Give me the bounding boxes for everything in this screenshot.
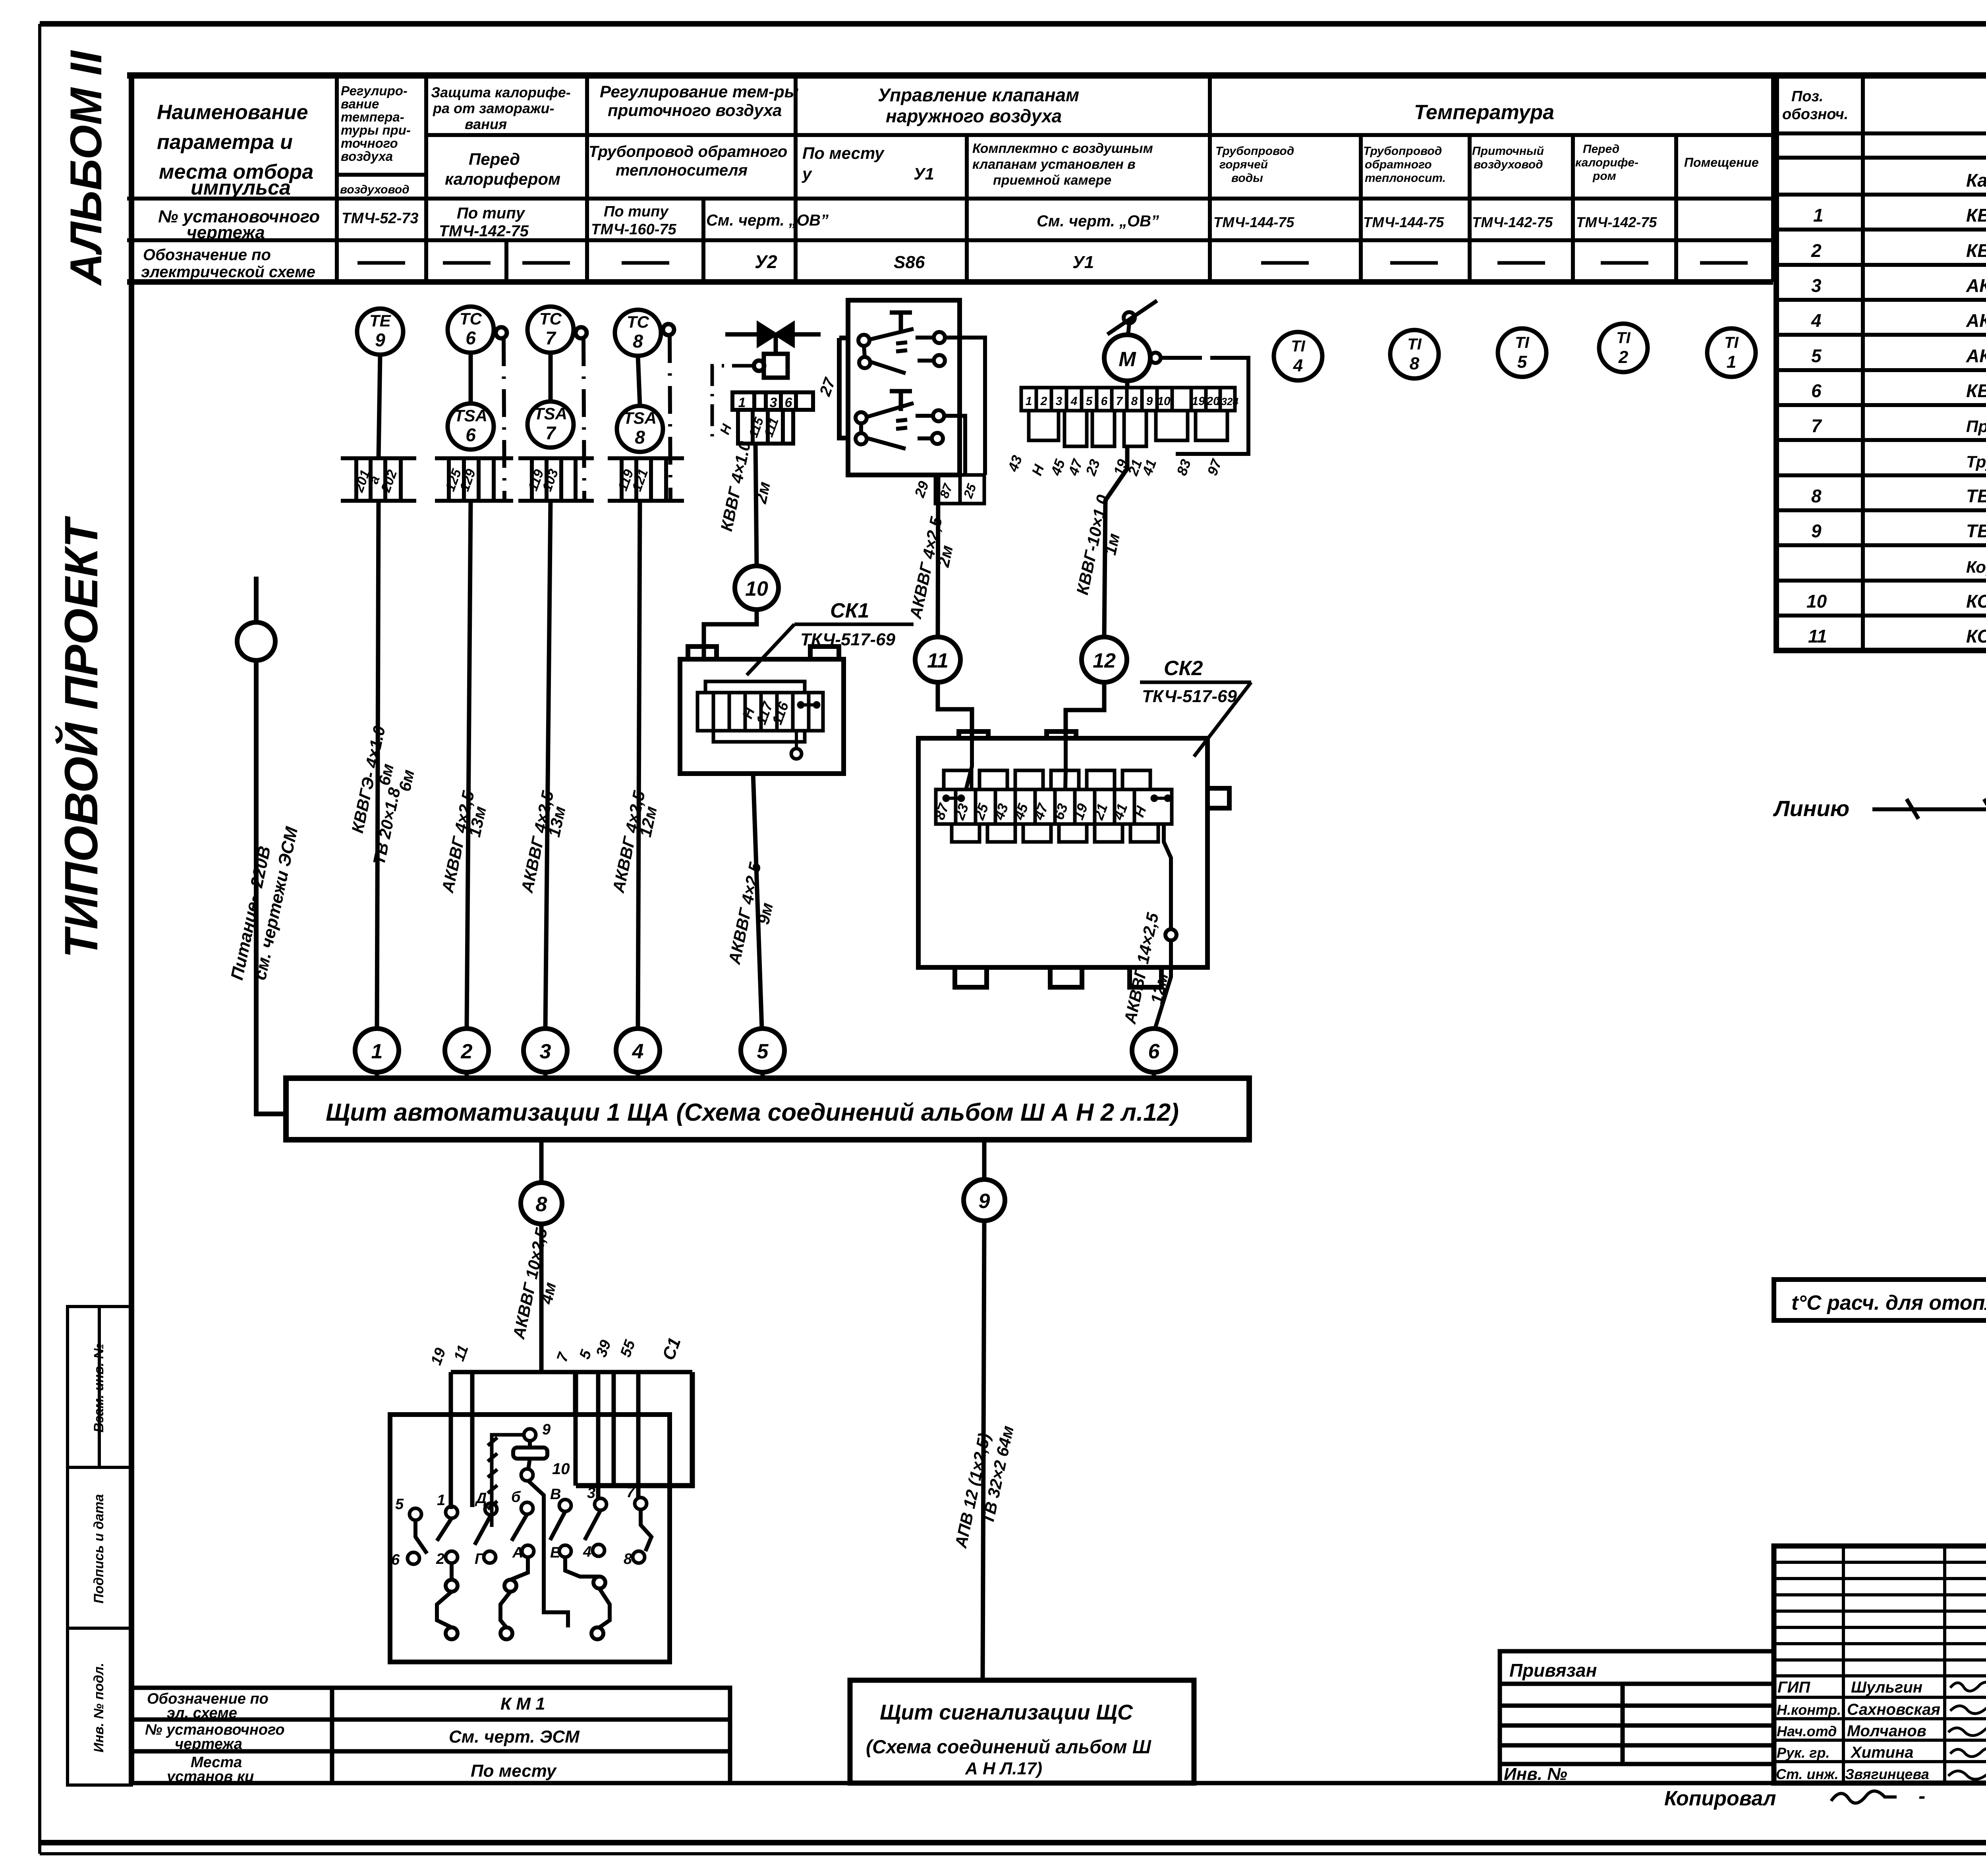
svg-text:Подпись и дата: Подпись и дата bbox=[91, 1494, 106, 1604]
wire TC6 to TSA6 bbox=[469, 353, 473, 403]
svg-text:1324: 1324 bbox=[1215, 396, 1238, 407]
svg-text:5: 5 bbox=[757, 1040, 769, 1063]
panel box ЩС bbox=[850, 1680, 1194, 1783]
left side stamp strip (Взам.инв., Подпись и дата, Инв.№ подл.) bbox=[68, 1307, 131, 1785]
sensor TC7 bbox=[527, 307, 587, 353]
dash-dot link from actuator bbox=[712, 366, 754, 442]
svg-text:ТЕ: ТЕ bbox=[369, 311, 392, 330]
svg-text:4: 4 bbox=[1070, 395, 1078, 408]
svg-text:12: 12 bbox=[1093, 649, 1116, 672]
svg-text:8: 8 bbox=[536, 1193, 547, 1216]
parts list table grid bbox=[1776, 75, 1986, 650]
node circle 1 bbox=[355, 1029, 399, 1072]
node circle 5 bbox=[741, 1029, 784, 1072]
svg-text:8: 8 bbox=[635, 427, 645, 448]
svg-text:Провод АПВ сеч. 2,5мм² ГОСТ 6: Провод АПВ сеч. 2,5мм² ГОСТ 6323-79 bbox=[1966, 417, 1986, 436]
CK1 ground circle bbox=[791, 731, 802, 759]
dashed route from motor bbox=[1161, 358, 1248, 454]
svg-text:Хитина: Хитина bbox=[1850, 1744, 1914, 1761]
terminal box under TSA7 bbox=[518, 458, 594, 501]
svg-text:АКВВГ 4×2,5: АКВВГ 4×2,5 bbox=[1966, 275, 1986, 296]
svg-text:6: 6 bbox=[785, 395, 793, 410]
svg-text:ТМЧ-144-75: ТМЧ-144-75 bbox=[1213, 214, 1294, 230]
power line node circle bbox=[237, 622, 275, 660]
wire drop 19 bbox=[449, 1372, 453, 1509]
long bottom line bbox=[730, 1781, 1500, 1785]
wire drop 11 bbox=[470, 1372, 475, 1507]
wire from coil terminal down bbox=[528, 1481, 544, 1582]
junction box CK1 bbox=[680, 647, 844, 774]
svg-text:Труба винипластовая ТУ-6-19-05: Труба винипластовая ТУ-6-19-051-249-79 bbox=[1966, 452, 1986, 471]
pipe line with valve bbox=[725, 332, 821, 337]
svg-text:См. черт. „ОВ”: См. черт. „ОВ” bbox=[1037, 212, 1159, 230]
svg-text:Защита калорифе-: Защита калорифе- bbox=[431, 84, 571, 100]
svg-text:Взам. инв. №: Взам. инв. № bbox=[91, 1343, 106, 1433]
svg-text:установ ки: установ ки bbox=[166, 1768, 254, 1785]
motor handle bbox=[1107, 301, 1157, 335]
parts list header bbox=[1782, 88, 1986, 123]
svg-text:ТМЧ-142-75: ТМЧ-142-75 bbox=[1576, 214, 1657, 230]
svg-text:1: 1 bbox=[1813, 205, 1824, 226]
svg-text:КВВГЭ 4×1.0: КВВГЭ 4×1.0 bbox=[1966, 380, 1986, 401]
svg-text:горячей: горячей bbox=[1219, 158, 1268, 171]
note: Линию демонтировать bbox=[1773, 796, 1986, 821]
terminal box under TSA6 bbox=[435, 458, 513, 501]
svg-text:(Схема соединений альбом Ш: (Схема соединений альбом Ш bbox=[866, 1737, 1151, 1758]
svg-text:А Н Л.17): А Н Л.17) bbox=[965, 1759, 1042, 1778]
svg-text:11: 11 bbox=[1808, 626, 1827, 647]
bus from circle 8 wire to C1 bbox=[451, 1370, 692, 1374]
svg-text:СК1: СК1 bbox=[830, 599, 869, 622]
junction box CK2 bbox=[918, 731, 1229, 987]
svg-text:К М 1: К М 1 bbox=[500, 1694, 545, 1714]
svg-text:Инв. №: Инв. № bbox=[1504, 1764, 1567, 1784]
svg-text:4: 4 bbox=[1811, 310, 1822, 331]
svg-text:Кабель ГОСТ 1508-78Е: Кабель ГОСТ 1508-78Е bbox=[1966, 170, 1986, 191]
svg-text:электрической схеме: электрической схеме bbox=[141, 263, 315, 281]
S86 bottom terminal cells bbox=[935, 475, 984, 504]
svg-text:Коробка соединительная ТУ36.17: Коробка соединительная ТУ36.1753-75 bbox=[1966, 558, 1986, 576]
svg-text:S86: S86 bbox=[894, 253, 925, 272]
node circle 12 bbox=[1082, 637, 1127, 682]
svg-text:ГИП: ГИП bbox=[1777, 1679, 1810, 1696]
svg-text:АКВВГ 14×2,5: АКВВГ 14×2,5 bbox=[1966, 345, 1986, 366]
node circle 2 bbox=[445, 1029, 489, 1072]
svg-text:У2: У2 bbox=[755, 251, 777, 272]
svg-text:10: 10 bbox=[1806, 591, 1827, 612]
svg-text:туры при-: туры при- bbox=[341, 123, 411, 137]
svg-text:Нач.отд: Нач.отд bbox=[1777, 1723, 1837, 1739]
CK2 label bbox=[1140, 657, 1251, 757]
node circle 10 bbox=[735, 566, 779, 610]
svg-text:3: 3 bbox=[1056, 395, 1063, 408]
terminal strip above CK1 wire bbox=[732, 392, 813, 444]
svg-text:По типу: По типу bbox=[457, 205, 525, 222]
dash-dot wire from TC8 side circle bbox=[670, 335, 670, 500]
relay contact letters bbox=[391, 1484, 636, 1568]
wire from circle 9 down to ЩС bbox=[983, 1221, 984, 1680]
signatures squiggles bbox=[1948, 1682, 1986, 1779]
sensor TC8 bbox=[615, 310, 674, 356]
svg-text:По типу: По типу bbox=[604, 203, 669, 220]
svg-text:8: 8 bbox=[1131, 395, 1138, 408]
svg-text:5: 5 bbox=[1811, 345, 1822, 366]
svg-text:М: М bbox=[1119, 348, 1136, 371]
svg-text:TSA: TSA bbox=[454, 406, 487, 425]
svg-text:Температура: Температура bbox=[1414, 101, 1554, 124]
CK2 terminal strip bbox=[936, 770, 1172, 842]
svg-text:у: у bbox=[802, 164, 813, 183]
svg-text:Е: Е bbox=[550, 1544, 561, 1561]
CK1 jumper dots bbox=[797, 701, 820, 708]
svg-text:По месту: По месту bbox=[471, 1761, 557, 1781]
svg-text:Трубопровод обратного: Трубопровод обратного bbox=[589, 143, 787, 160]
CK2 jumper dots bbox=[943, 795, 1171, 802]
svg-text:9: 9 bbox=[1146, 395, 1153, 408]
svg-text:обозноч.: обозноч. bbox=[1782, 106, 1848, 123]
svg-text:10: 10 bbox=[1157, 395, 1171, 408]
svg-text:1: 1 bbox=[1026, 395, 1032, 408]
svg-text:2: 2 bbox=[461, 1040, 473, 1063]
wire 1 from TE9 box to circle 1 bbox=[377, 501, 379, 1029]
svg-text:теплоносителя: теплоносителя bbox=[616, 162, 748, 179]
svg-text:Шульгин: Шульгин bbox=[1851, 1679, 1922, 1696]
svg-text:Ст. инж.: Ст. инж. bbox=[1776, 1766, 1839, 1782]
parameter table grid bbox=[127, 75, 1986, 282]
svg-text:9: 9 bbox=[979, 1190, 990, 1213]
svg-text:воздуховод: воздуховод bbox=[340, 183, 410, 196]
svg-text:Линию: Линию bbox=[1773, 796, 1849, 821]
svg-text:параметра и: параметра и bbox=[157, 131, 293, 154]
svg-text:КВВГ 10×1.0: КВВГ 10×1.0 bbox=[1966, 240, 1986, 261]
svg-text:См. черт. „ОВ”: См. черт. „ОВ” bbox=[706, 212, 829, 229]
svg-text:наружного воздуха: наружного воздуха bbox=[886, 106, 1062, 126]
relay terminal below coil bbox=[521, 1469, 533, 1481]
svg-text:3: 3 bbox=[770, 395, 777, 410]
svg-text:11: 11 bbox=[927, 649, 949, 672]
svg-text:6: 6 bbox=[1148, 1040, 1160, 1063]
svg-text:-: - bbox=[1918, 1785, 1925, 1808]
wire TE9 down bbox=[379, 355, 380, 458]
svg-text:Управление клапанам: Управление клапанам bbox=[878, 85, 1079, 105]
svg-text:7: 7 bbox=[545, 328, 556, 348]
svg-text:1: 1 bbox=[371, 1040, 383, 1063]
node circle 6 bbox=[1132, 1029, 1176, 1072]
S86 contact group 2 bbox=[856, 338, 985, 475]
wire 3 to circle 3 bbox=[545, 501, 551, 1029]
svg-text:Молчанов: Молчанов bbox=[1847, 1722, 1926, 1740]
svg-text:В: В bbox=[550, 1486, 561, 1503]
svg-text:Регулиро-: Регулиро- bbox=[341, 83, 408, 98]
wire drop 55 bbox=[636, 1372, 641, 1498]
wire 2 to circle 2 bbox=[467, 501, 471, 1029]
svg-text:7: 7 bbox=[626, 1484, 636, 1501]
svg-text:4: 4 bbox=[1293, 356, 1303, 375]
svg-text:6: 6 bbox=[466, 328, 476, 348]
svg-text:ра от заморажи-: ра от заморажи- bbox=[433, 100, 554, 116]
svg-text:АКВВГ 10×2,5: АКВВГ 10×2,5 bbox=[1966, 310, 1986, 331]
wire 4 to circle 4 bbox=[638, 501, 640, 1029]
instrument circle TI4 bbox=[1274, 332, 1322, 380]
relay coil 10 bbox=[513, 1441, 547, 1469]
svg-text:точного: точного bbox=[341, 136, 398, 151]
dash-dot wire from TC6 side circle bbox=[504, 338, 504, 500]
motor M bbox=[1104, 335, 1150, 381]
svg-text:7: 7 bbox=[1116, 395, 1123, 408]
svg-text:8: 8 bbox=[1811, 486, 1822, 506]
svg-text:3: 3 bbox=[1811, 275, 1822, 296]
svg-text:Рук. гр.: Рук. гр. bbox=[1777, 1745, 1830, 1761]
svg-text:ТС: ТС bbox=[460, 309, 482, 328]
sensor TSA8 bbox=[617, 406, 663, 452]
svg-text:TSA: TSA bbox=[623, 409, 657, 427]
svg-text:Инв. № подл.: Инв. № подл. bbox=[91, 1663, 106, 1752]
svg-text:Н.контр.: Н.контр. bbox=[1777, 1702, 1841, 1718]
svg-text:8: 8 bbox=[624, 1551, 632, 1567]
svg-text:ром: ром bbox=[1592, 170, 1616, 183]
svg-text:ТС: ТС bbox=[627, 313, 649, 331]
svg-text:3: 3 bbox=[587, 1485, 595, 1502]
CK1 label bbox=[747, 599, 914, 675]
svg-text:5: 5 bbox=[395, 1496, 404, 1513]
svg-text:вание: вание bbox=[341, 97, 379, 111]
svg-text:5: 5 bbox=[1086, 395, 1093, 408]
dismantle hatched wire bbox=[488, 1435, 524, 1527]
svg-text:7: 7 bbox=[545, 423, 556, 443]
parameter table header texts bbox=[141, 101, 320, 281]
svg-text:Приточный: Приточный bbox=[1472, 145, 1544, 158]
svg-text:2: 2 bbox=[1618, 347, 1629, 367]
svg-text:5: 5 bbox=[1517, 352, 1527, 372]
svg-text:1: 1 bbox=[437, 1492, 445, 1509]
terminal box under TE9 bbox=[341, 458, 416, 501]
sensor TSA6 bbox=[448, 403, 494, 450]
svg-text:калорифе-: калорифе- bbox=[1575, 156, 1638, 169]
instrument circle TI1 bbox=[1707, 328, 1756, 377]
wire TC7 to TSA7 bbox=[549, 353, 553, 401]
svg-text:ТМЧ-142-75: ТМЧ-142-75 bbox=[439, 222, 529, 240]
svg-text:Комплектно с воздушным: Комплектно с воздушным bbox=[972, 141, 1153, 156]
svg-text:По месту: По месту bbox=[802, 144, 885, 162]
svg-text:Наименование: Наименование bbox=[157, 101, 308, 124]
svg-text:импульса: импульса bbox=[191, 176, 291, 199]
svg-text:6: 6 bbox=[391, 1552, 400, 1568]
node circle 11 bbox=[915, 637, 960, 682]
svg-text:Копировал: Копировал bbox=[1664, 1787, 1776, 1810]
wire drop 7 bbox=[574, 1372, 578, 1486]
svg-text:Обозначение по: Обозначение по bbox=[143, 246, 271, 264]
switch box S86 bbox=[839, 300, 960, 475]
inner frame line separating left margin strip bbox=[129, 75, 134, 1785]
svg-text:КСК-16: КСК-16 bbox=[1966, 626, 1986, 647]
CK2 output small circle bbox=[1155, 824, 1177, 1029]
svg-text:Перед: Перед bbox=[469, 150, 520, 168]
relay terminal 9 bbox=[524, 1429, 536, 1441]
wire strip to circle 10 bbox=[755, 444, 757, 566]
wire circle 12 to CK2 bbox=[1066, 682, 1104, 738]
dash-dot wire from TC7 side circle bbox=[583, 338, 584, 500]
svg-text:8: 8 bbox=[1410, 354, 1420, 373]
parts list rows bbox=[1806, 170, 1986, 647]
svg-text:калорифером: калорифером bbox=[445, 170, 560, 188]
svg-text:4: 4 bbox=[583, 1544, 591, 1560]
svg-text:10: 10 bbox=[745, 577, 768, 600]
svg-text:ТИПОВОЙ ПРОЕКТ: ТИПОВОЙ ПРОЕКТ bbox=[54, 515, 108, 958]
svg-text:ТМЧ-144-75: ТМЧ-144-75 bbox=[1363, 214, 1444, 230]
svg-text:ТВ 20×1.8: ТВ 20×1.8 bbox=[1966, 521, 1986, 541]
svg-text:Перед: Перед bbox=[1583, 143, 1619, 156]
svg-text:б: б bbox=[511, 1489, 521, 1505]
title block signature grid bbox=[1774, 1546, 1986, 1783]
svg-text:Г: Г bbox=[475, 1551, 485, 1567]
svg-text:Трубопровод: Трубопровод bbox=[1215, 145, 1294, 158]
svg-text:У1: У1 bbox=[914, 164, 934, 183]
sensor TE9 bbox=[357, 309, 403, 355]
svg-text:У1: У1 bbox=[1072, 253, 1094, 272]
motor terminal strip bbox=[1021, 388, 1235, 411]
wire from circle 8 down bbox=[539, 1224, 544, 1372]
svg-text:6: 6 bbox=[1811, 380, 1822, 401]
svg-text:2: 2 bbox=[1811, 240, 1822, 261]
C1 junction box bbox=[576, 1372, 692, 1486]
relay lower zigzag wires bbox=[437, 1557, 610, 1639]
svg-text:воздуховод: воздуховод bbox=[1474, 158, 1543, 171]
node circle 3 bbox=[524, 1029, 567, 1072]
svg-text:АЛЬБОМ II: АЛЬБОМ II bbox=[61, 50, 111, 286]
CK1 terminal strip bbox=[697, 681, 823, 742]
wire drop 39 bbox=[612, 1372, 616, 1486]
svg-text:КСК-8: КСК-8 bbox=[1966, 591, 1986, 612]
svg-text:См. черт. ЭСМ: См. черт. ЭСМ bbox=[449, 1727, 580, 1747]
CK2 internal wires from entries bbox=[966, 738, 1066, 789]
svg-text:Д: Д bbox=[475, 1490, 487, 1507]
svg-text:6: 6 bbox=[466, 425, 476, 445]
svg-text:8: 8 bbox=[633, 331, 643, 351]
svg-text:Регулирование тем-ры: Регулирование тем-ры bbox=[600, 82, 799, 101]
valve symbol bbox=[758, 323, 793, 345]
wire circle 11 to CK2 bbox=[938, 682, 972, 738]
svg-text:обратного: обратного bbox=[1365, 158, 1432, 171]
svg-text:клапанам установлен в: клапанам установлен в bbox=[972, 157, 1136, 172]
svg-text:1: 1 bbox=[738, 395, 746, 410]
svg-text:воды: воды bbox=[1231, 172, 1263, 185]
svg-text:ТВ 32×2: ТВ 32×2 bbox=[1966, 486, 1986, 506]
svg-text:Трубопровод: Трубопровод bbox=[1363, 145, 1442, 158]
sensor TC6 bbox=[448, 307, 507, 353]
svg-text:Помещение: Помещение bbox=[1684, 155, 1759, 170]
svg-text:Сахновская: Сахновская bbox=[1847, 1701, 1940, 1718]
svg-text:4: 4 bbox=[632, 1040, 644, 1063]
instrument circle TI2 bbox=[1599, 324, 1648, 372]
svg-text:Щит автоматизации 1 ЩА (: Щит автоматизации 1 ЩА (Схема соединений… bbox=[326, 1099, 1179, 1126]
S86 contact group 1 bbox=[858, 313, 945, 373]
svg-text:TSA: TSA bbox=[534, 404, 567, 423]
svg-text:9: 9 bbox=[542, 1421, 551, 1438]
valve actuator bbox=[754, 334, 788, 378]
short wires circles to panel box bbox=[377, 1072, 1154, 1078]
svg-text:ТI: ТI bbox=[1407, 336, 1422, 353]
wire S86 down to circle 11 bbox=[938, 475, 938, 637]
svg-text:Звягинцева: Звягинцева bbox=[1845, 1766, 1929, 1782]
svg-text:Привязан: Привязан bbox=[1509, 1660, 1597, 1681]
svg-text:ТI: ТI bbox=[1515, 334, 1529, 351]
svg-text:Щит сигнализации ЩС: Щит сигнализации ЩС bbox=[880, 1700, 1133, 1724]
node circle 4 bbox=[616, 1029, 660, 1072]
svg-text:9: 9 bbox=[375, 330, 385, 350]
svg-text:приемной камере: приемной камере bbox=[993, 173, 1111, 188]
svg-text:А: А bbox=[512, 1544, 523, 1561]
wire CK1 to circle 5 bbox=[753, 774, 762, 1029]
svg-text:СК2: СК2 bbox=[1164, 657, 1203, 680]
motor strip lower connectors bbox=[1029, 411, 1227, 446]
svg-text:вания: вания bbox=[465, 116, 507, 132]
sensor TSA7 bbox=[527, 401, 574, 448]
svg-text:ТС: ТС bbox=[539, 309, 562, 328]
svg-text:ТI: ТI bbox=[1724, 334, 1739, 351]
instrument circle TI8 bbox=[1390, 330, 1439, 378]
svg-text:чертежа: чертежа bbox=[175, 1736, 242, 1752]
svg-text:ТI: ТI bbox=[1291, 338, 1305, 355]
instrument circle TI5 bbox=[1498, 328, 1546, 377]
wire TC8 to TSA8 bbox=[638, 356, 640, 406]
wire circle 10 to CK1 bbox=[704, 610, 757, 659]
wire drop 5 bbox=[596, 1372, 601, 1499]
power supply line Питание 220В bbox=[256, 577, 286, 1114]
title block bbox=[1774, 1546, 1986, 1783]
svg-text:воздуха: воздуха bbox=[341, 149, 393, 164]
svg-text:ТI: ТI bbox=[1616, 329, 1631, 347]
svg-text:6: 6 bbox=[1101, 395, 1108, 408]
node circle 8 bbox=[539, 1140, 544, 1183]
svg-text:эл. схеме: эл. схеме bbox=[167, 1705, 237, 1722]
terminal box under TSA8 bbox=[608, 458, 684, 501]
Привязан block bbox=[1500, 1651, 1774, 1783]
relay box K1 bbox=[390, 1415, 670, 1662]
svg-text:темпера-: темпера- bbox=[341, 110, 404, 124]
node circle 9 bbox=[982, 1140, 987, 1179]
relay contact row top bbox=[410, 1498, 647, 1520]
svg-text:ТКЧ-517-69: ТКЧ-517-69 bbox=[1142, 687, 1237, 706]
svg-text:приточного воздуха: приточного воздуха bbox=[608, 101, 782, 120]
svg-text:3: 3 bbox=[540, 1040, 551, 1063]
motor side circle bbox=[1150, 353, 1161, 363]
automation panel box ЩА bbox=[286, 1078, 1249, 1140]
svg-text:Поз.: Поз. bbox=[1791, 88, 1824, 105]
svg-text:9: 9 bbox=[1811, 521, 1822, 541]
svg-text:19: 19 bbox=[1192, 395, 1205, 408]
bottom left reference table bbox=[131, 1688, 730, 1783]
svg-text:7: 7 bbox=[1811, 415, 1822, 436]
empty designation dashes in row 3 bbox=[357, 261, 1748, 265]
svg-text:2: 2 bbox=[1040, 395, 1047, 408]
svg-text:ТМЧ-160-75: ТМЧ-160-75 bbox=[591, 221, 676, 238]
svg-text:КВВГ 4×1.0: КВВГ 4×1.0 bbox=[1966, 205, 1986, 226]
svg-text:чертежа: чертежа bbox=[187, 223, 265, 242]
svg-text:t°С расч. для отопления.: t°С расч. для отопления. bbox=[1791, 1291, 1986, 1314]
t°C расч. box bbox=[1774, 1280, 1986, 1320]
svg-text:ТМЧ-142-75: ТМЧ-142-75 bbox=[1472, 214, 1553, 230]
relay switch arms bbox=[415, 1509, 651, 1554]
svg-text:1: 1 bbox=[1727, 352, 1736, 372]
svg-text:ТМЧ-52-73: ТМЧ-52-73 bbox=[342, 210, 419, 227]
wire motor to circle 12 bbox=[1104, 381, 1127, 637]
svg-text:теплоносит.: теплоносит. bbox=[1365, 172, 1446, 185]
relay contact row bottom bbox=[408, 1544, 645, 1564]
svg-text:10: 10 bbox=[552, 1460, 570, 1478]
svg-text:2: 2 bbox=[436, 1551, 444, 1567]
